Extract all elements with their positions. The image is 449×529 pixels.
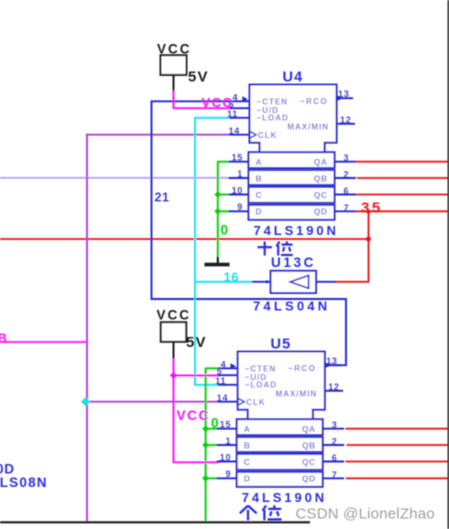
svg-text:QD: QD [314,207,328,217]
wire: red output QD U5 pin7 [346,477,448,479]
inverter input wedge [266,280,270,284]
wire: green branch U4 pin9 D [218,210,230,212]
wire: red output QB U4 pin2 [357,177,448,179]
svg-text:74LS190N: 74LS190N [254,223,339,238]
svg-text:C: C [256,190,263,200]
svg-text:3: 3 [344,153,349,163]
svg-text:5V: 5V [188,69,209,86]
top control box [250,85,337,153]
svg-text:10: 10 [232,185,243,195]
wire: red output QD U4 pin7 [356,210,448,212]
right pin stubs (13,12) [337,97,353,99]
svg-text:U4: U4 [283,69,304,85]
wire: green branch U5 pin15 A [206,428,218,430]
counter U4 74LS190N symbol body [227,85,356,220]
counter U5 74LS190N symbol body (same symbol, shifted) [215,352,344,487]
svg-text:74LS190N: 74LS190N [242,490,327,505]
svg-text:4LS08N: 4LS08N [0,475,48,490]
wire: magenta branch to U5 pin 5 [174,374,220,376]
ground symbol below U4 preset net [217,257,219,264]
svg-text:11: 11 [227,109,238,119]
svg-text:A: A [256,157,263,167]
wire: purple clock branch to U4 CLK pin 14 [86,134,229,136]
svg-text:U5: U5 [271,336,292,352]
wire: cyan net U4 pin11 down to U5 pin11 [195,118,230,385]
svg-text:QA: QA [314,157,328,167]
inverter output stub [316,281,336,283]
wire: green branch U5 pin9 D [206,477,218,479]
output arrow pin 13 [337,95,343,101]
frame: right border line [447,0,449,529]
svg-text:2: 2 [344,170,349,180]
junction: green dots on U5 preset net [202,425,209,432]
svg-text:15: 15 [232,153,243,163]
svg-text:B: B [256,173,263,183]
svg-text:~RCO: ~RCO [300,97,328,106]
svg-text:VCC: VCC [157,308,192,323]
inverter U13C box [271,271,316,293]
svg-text:0: 0 [211,415,219,430]
wire: magenta VCC net to U5 pin5 and pin10 [174,358,220,462]
wire: purple clock vertical x=87 [86,134,88,522]
wire: green net U5 (pin4, A, B, D) down to ground rail [206,368,218,521]
svg-text:21: 21 [155,191,170,205]
wire: red output QB U5 pin2 [347,444,449,446]
data row boxes A-D [249,152,335,168]
wire: magenta net B from left edge [0,341,88,343]
svg-text:U13C: U13C [271,255,316,270]
svg-text:~LOAD: ~LOAD [257,114,289,123]
wire: VCC2 black stub below symbol [173,342,175,359]
svg-text:VCC: VCC [177,408,210,423]
svg-text:B: B [0,331,7,346]
wire: green net U4 preset (A,C,D) to ground [218,162,230,258]
svg-text:74LS04N: 74LS04N [253,299,330,314]
svg-text:9: 9 [237,202,243,212]
wire: green branch U5 pin1 B [206,444,218,446]
svg-text:16: 16 [224,270,239,285]
svg-text:0: 0 [221,223,229,238]
svg-text:MAX/MIN: MAX/MIN [287,123,329,132]
inverter input stub [252,281,271,283]
wire: red output QC U4 pin6 [356,194,448,196]
wire: red output QA U5 pin3 [346,428,449,430]
label 个位 (units digit) under U5 [240,506,248,514]
svg-text:QB: QB [314,173,328,183]
wire: red output QC U5 pin6 [346,461,449,463]
wire: light-purple net from left edge to U4 pin 1 (B) [0,177,230,179]
svg-text:5V: 5V [186,334,207,351]
row pin stubs left and right [229,161,249,163]
wire: cyan branch to inverter U13C input [195,281,253,283]
wire: purple clock branch to U5 CLK pin 14 [86,401,218,403]
input wedge pin 4 [242,96,248,102]
svg-text:14: 14 [229,126,240,136]
svg-text:CSDN @LionelZhao: CSDN @LionelZhao [296,505,435,522]
junction: red dot QD net [366,210,370,214]
wire: blue cascade net U5 RCO pin13 to U4 CTEN pin4 [152,101,347,365]
svg-text:CLK: CLK [258,131,277,140]
junction: red dot at y=239 tee [366,237,371,242]
svg-text:D: D [256,207,263,217]
left pin stubs (4,5,11,14) [230,100,250,102]
label 十位 (tens digit) under U4 [258,246,273,248]
svg-text:QC: QC [314,190,328,200]
svg-text:VCC: VCC [202,95,234,110]
ground rail: black line at bottom [0,521,310,523]
clock wedge pin 14 [250,131,257,138]
svg-text:35: 35 [361,200,383,217]
wire: red vertical from QD net down to inverter output [335,211,369,281]
svg-text:7: 7 [344,203,349,213]
junction: green dots on U4 preset net [214,191,221,198]
wire: red net horizontal y=239 from left edge [0,238,369,240]
wire: green branch U4 pin10 C [218,194,230,196]
inverter U13C triangle [290,275,308,288]
junction: magenta dot at (173.5,375.4) [170,372,177,379]
svg-text:12: 12 [340,115,351,125]
wire: red output QA U4 pin3 [356,161,448,163]
junction: cyan dot at purple clock tee (86,402) [81,397,90,406]
svg-text:1: 1 [237,169,243,179]
wire: VCC1 black stub below symbol [173,75,175,92]
wire: magenta VCC net to U4 pin 5 [174,91,231,109]
svg-text:13: 13 [338,89,349,99]
svg-text:6: 6 [344,186,349,196]
